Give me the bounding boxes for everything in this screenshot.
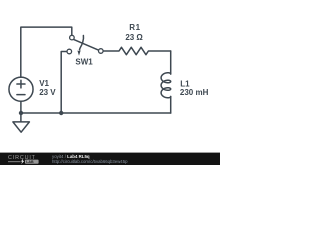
svg-text:R1: R1 bbox=[129, 23, 140, 32]
svg-text:http://circuitlab.com/c/5vab66: http://circuitlab.com/c/5vab66qb3ew45p bbox=[52, 159, 128, 164]
svg-text:23 V: 23 V bbox=[39, 88, 56, 97]
svg-text:23 Ω: 23 Ω bbox=[125, 33, 143, 42]
svg-text:SW1: SW1 bbox=[75, 57, 93, 66]
svg-text:LAB: LAB bbox=[26, 160, 34, 164]
svg-text:V1: V1 bbox=[39, 79, 49, 88]
svg-text:230 mH: 230 mH bbox=[180, 88, 209, 97]
